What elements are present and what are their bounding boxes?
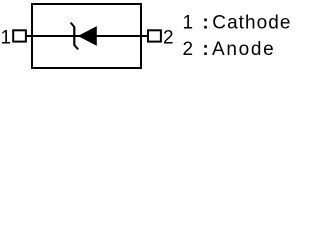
svg-text:1: 1: [183, 13, 194, 34]
svg-text::: :: [202, 39, 208, 60]
svg-text:Anode: Anode: [212, 39, 275, 60]
svg-text::: :: [202, 13, 208, 34]
svg-text:2: 2: [183, 39, 194, 60]
zener diode: cathode top bend: [71, 23, 75, 28]
wire: anode to pin 2: [95, 35, 149, 37]
pin 1 pad: [13, 30, 26, 41]
zener diode: cathode bottom bend: [74, 45, 78, 50]
svg-text:1: 1: [1, 27, 12, 48]
wire: pin 1 to cathode: [25, 35, 80, 37]
zener diode: cathode bar: [73, 27, 75, 45]
svg-text:Cathode: Cathode: [212, 13, 290, 34]
pin 2 pad: [148, 30, 161, 41]
zener diode: anode triangle: [80, 27, 96, 44]
svg-text:2: 2: [163, 28, 174, 49]
package body: [32, 4, 141, 68]
